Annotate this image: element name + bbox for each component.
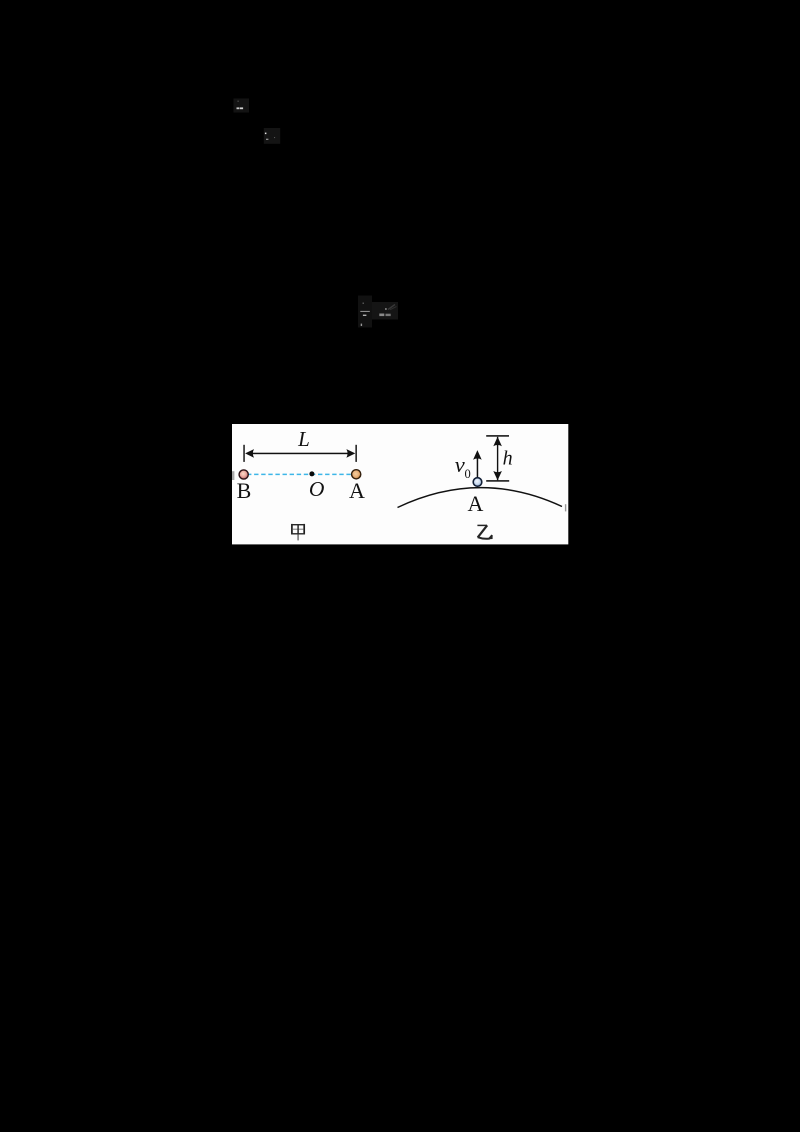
- arrowhead left: [245, 449, 254, 458]
- right edge gray tick: [565, 504, 566, 511]
- v0 arrowhead: [473, 450, 482, 460]
- white figure panel: [232, 424, 568, 544]
- faint remnant mark 3 (fraction): [358, 296, 398, 328]
- h dimension shaft: [497, 437, 498, 481]
- h arrowhead down: [493, 471, 502, 480]
- h dimension bottom tick: [486, 480, 509, 482]
- faint remnant mark 2: [264, 128, 280, 144]
- ball B: [239, 470, 248, 479]
- planet surface arc: [398, 488, 563, 508]
- caption yi (乙): [477, 525, 492, 539]
- midpoint dot O: [309, 471, 314, 476]
- svg-text:O: O: [309, 477, 325, 501]
- faint remnant mark 1: [234, 99, 250, 113]
- dimension tick right: [355, 445, 357, 462]
- h dimension top tick: [486, 435, 509, 437]
- svg-text:B: B: [237, 478, 252, 503]
- svg-text:L: L: [297, 427, 310, 451]
- svg-text:A: A: [349, 478, 365, 503]
- svg-text:h: h: [503, 448, 513, 470]
- left edge gray sliver: [232, 471, 234, 480]
- svg-text:0: 0: [465, 467, 471, 481]
- v0 arrow shaft: [477, 459, 479, 478]
- caption jia (甲): [291, 524, 305, 541]
- arrowhead right: [346, 449, 355, 458]
- h arrowhead up: [493, 437, 502, 446]
- projectile ball at A: [473, 478, 482, 487]
- ball A: [352, 470, 361, 479]
- svg-text:A: A: [468, 491, 484, 516]
- dimension tick left: [243, 445, 245, 462]
- svg-text:v: v: [455, 452, 465, 477]
- dashed line B to A: [247, 473, 353, 475]
- dimension arrow shaft L: [249, 453, 351, 455]
